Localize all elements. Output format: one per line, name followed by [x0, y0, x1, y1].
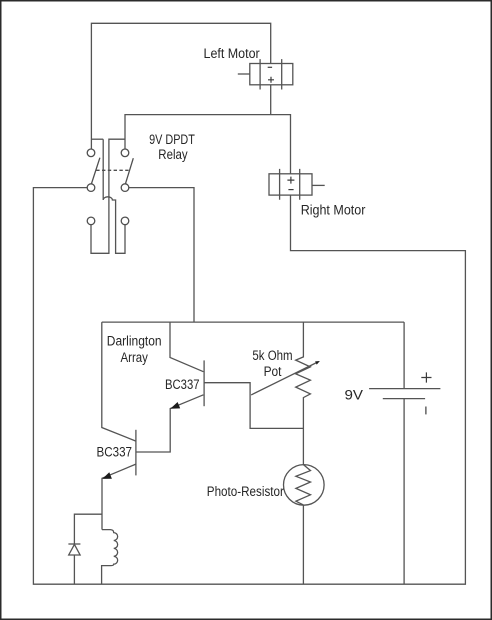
motor Right Motor minus sign — [288, 189, 293, 191]
svg-text:Darlington: Darlington — [107, 333, 162, 348]
motor Left Motor body — [250, 64, 293, 85]
svg-text:BC337: BC337 — [97, 444, 133, 459]
svg-text:Right Motor: Right Motor — [301, 203, 366, 218]
wire: diode D1 bottom to ground rail — [73, 555, 75, 584]
relay K1 terminal bottom-right — [121, 217, 129, 225]
motor Left Motor minus sign — [268, 66, 272, 68]
wire: relay right pole to lower circuit top rail — [129, 188, 194, 323]
motor Left Motor brush lines — [260, 59, 282, 89]
relay K1 switch arm right — [126, 158, 134, 183]
svg-text:Left Motor: Left Motor — [204, 46, 261, 61]
motor Right Motor right stub lead — [312, 184, 325, 186]
svg-text:9V: 9V — [345, 388, 364, 403]
battery BT1 positive wire — [403, 322, 405, 389]
photo-resistor R2 zigzag element — [296, 465, 311, 505]
transistor Q1 BC337 collector wire — [102, 322, 136, 441]
relay K1 terminal top-right — [121, 149, 129, 157]
relay K1 terminal top-left — [87, 149, 95, 157]
wire: photo-resistor bottom to ground rail — [302, 505, 304, 584]
transistor Q1 BC337 emitter wire down to coil — [102, 464, 136, 529]
inductor L1 relay coil — [102, 530, 118, 585]
wire: branch from top-left wire to crossover wire A — [91, 138, 103, 140]
battery BT1 short negative plate — [383, 398, 425, 400]
svg-text:Photo-Resistor: Photo-Resistor — [207, 484, 285, 499]
relay K1 terminal bottom-left — [87, 217, 95, 225]
motor Right Motor body — [269, 174, 312, 195]
battery BT1 plus sign — [421, 372, 431, 382]
potentiometer R1 wiper arrowhead — [315, 361, 320, 365]
transistor Q2 BC337 collector wire — [170, 322, 203, 372]
transistor Q1 BC337 base bar — [135, 430, 137, 476]
transistor Q2 emitter arrowhead — [170, 402, 180, 409]
battery BT1 minus sign (vertical tick) — [425, 407, 427, 415]
motor Right Motor brush lines — [280, 169, 300, 200]
potentiometer R1 5k wire and zigzag — [296, 322, 311, 465]
diode D1 cathode bar — [68, 543, 80, 545]
relay K1 mechanical link (dashed) — [96, 169, 129, 171]
svg-text:Relay: Relay — [158, 147, 188, 162]
wire: relay top-right terminal up, right, down to Right Motor + — [125, 115, 291, 174]
wire: crossover B (top-right terminal to bottom-left terminal) — [91, 139, 125, 253]
motor Left Motor plus sign — [268, 77, 274, 83]
transistor Q2 BC337 base bar — [203, 360, 205, 406]
transistor Q2 BC337 emitter wire down to Q1 base — [136, 395, 204, 452]
svg-text:5k Ohm: 5k Ohm — [252, 348, 292, 363]
transistor Q1 emitter arrowhead — [102, 472, 112, 479]
relay K1 switch arm left — [92, 158, 100, 184]
wire: Left Motor - down to junction — [270, 85, 272, 115]
photo-resistor R2 body circle — [284, 465, 325, 506]
relay K1 pole left — [87, 184, 95, 192]
wire: top rail of lower circuit — [102, 321, 404, 323]
diode D1 anode triangle — [69, 544, 80, 555]
svg-text:BC337: BC337 — [165, 377, 200, 392]
wire: battery negative to bottom rail — [403, 399, 405, 585]
motor Right Motor plus sign — [287, 177, 294, 184]
wire: relay top-left terminal up, across top, down to Left Motor + — [91, 23, 270, 153]
battery BT1 long positive plate — [369, 388, 440, 390]
wire: emitter junction branch to diode D1 — [74, 514, 102, 544]
svg-text:Array: Array — [121, 350, 149, 365]
potentiometer R1 wiper arrow line — [251, 362, 318, 395]
relay K1 pole right — [121, 184, 129, 192]
wire: crossover A (top-left terminal to bottom-right terminal) with hop — [103, 139, 125, 253]
motor Left Motor left stub lead — [238, 73, 250, 75]
svg-text:Pot: Pot — [264, 364, 282, 379]
wire: Right Motor - down, right rail, bottom rail, left rail, to relay left pole — [33, 188, 465, 585]
wire: Q2 base lead to divider junction — [204, 383, 303, 429]
svg-text:9V DPDT: 9V DPDT — [149, 132, 195, 147]
